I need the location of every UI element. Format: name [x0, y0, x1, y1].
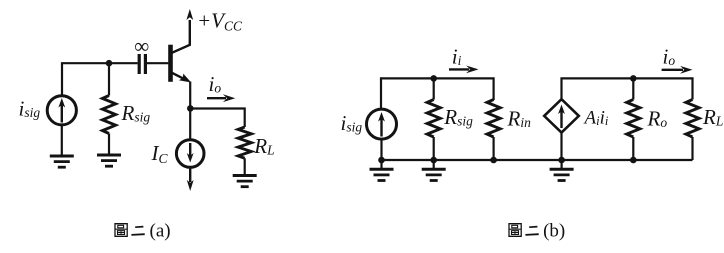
- svg-text:Rin: Rin: [507, 107, 532, 131]
- resistor R_o: [632, 78, 634, 160]
- wire: i_sig (b) bottom to rail: [380, 139, 382, 160]
- svg-text:(a): (a): [150, 221, 171, 242]
- current arrow i_o: [207, 97, 226, 99]
- ground under dependent source: [560, 160, 562, 169]
- current arrow i_o (b): [662, 69, 683, 71]
- wire: I_C to negative supply arrow: [189, 168, 191, 182]
- node: dot at R_sig top: [430, 75, 437, 82]
- supply +VCC arrow: [186, 9, 193, 20]
- svg-text:Rsig: Rsig: [121, 101, 151, 125]
- node: dot at i_sig bottom: [378, 157, 385, 164]
- node: output junction dot: [187, 105, 194, 112]
- svg-text:RL: RL: [253, 134, 274, 158]
- node: junction dot at R_sig top: [106, 60, 113, 67]
- node: dot at R_o bottom: [630, 157, 637, 164]
- transistor Q1 base bar: [168, 45, 173, 82]
- ground under i_sig (b): [380, 160, 382, 169]
- wire: R_sig to ground: [108, 134, 110, 156]
- svg-text:io: io: [209, 72, 222, 96]
- ground under i_sig: [50, 156, 74, 167]
- capacitor C (infinite) plates: [139, 54, 145, 74]
- caption 圖二(a): [115, 224, 145, 237]
- svg-text:RL: RL: [702, 105, 723, 129]
- ground under R_sig: [97, 155, 121, 166]
- svg-text:Rsig: Rsig: [443, 105, 473, 129]
- caption 圖二(b): [509, 224, 539, 237]
- dependent source A_i i_i (diamond): [544, 99, 579, 132]
- resistor R_sig (b): [433, 78, 435, 160]
- node: dot at dependent source bottom: [558, 157, 565, 164]
- wire: node to R_L: [190, 109, 244, 128]
- wire: capacitor to transistor base: [147, 62, 168, 64]
- wire: top base wire from i_sig corner to capacitor: [62, 62, 138, 96]
- svg-text:Ro: Ro: [647, 107, 668, 131]
- wire: input top rail: [381, 77, 494, 109]
- svg-text:isig: isig: [341, 111, 363, 135]
- wire: node down to I_C: [189, 109, 191, 140]
- svg-text:IC: IC: [151, 141, 169, 166]
- resistor R_in: [493, 100, 495, 161]
- wire: i_sig to ground: [61, 125, 63, 156]
- svg-text:Aiii: Aiii: [583, 108, 609, 129]
- wire: diamond top to output rail, output top rail: [560, 77, 693, 99]
- wire: emitter down to output node: [189, 82, 191, 109]
- resistor R_L (b): [686, 100, 699, 138]
- resistor R_sig: [102, 96, 115, 134]
- svg-text:ii: ii: [452, 45, 462, 69]
- wire: R_L to ground: [244, 158, 246, 175]
- svg-text:+VCC: +VCC: [197, 9, 243, 34]
- current source I_C: [176, 140, 204, 168]
- wire: junction down to R_sig: [108, 63, 110, 95]
- svg-text:io: io: [663, 45, 676, 69]
- node: dot at R_sig bottom: [430, 157, 437, 164]
- ground under R_sig (b): [433, 160, 435, 169]
- svg-text:(b): (b): [543, 221, 565, 242]
- current source i_sig (b): [367, 109, 397, 139]
- svg-text:isig: isig: [19, 97, 41, 121]
- node: dot at R_in bottom: [490, 157, 497, 164]
- transistor Q1 emitter with arrow: [171, 72, 187, 80]
- transistor Q1 collector: [171, 20, 190, 53]
- current source i_sig: [47, 96, 76, 125]
- resistor R_L: [238, 127, 251, 158]
- ground under R_L: [233, 176, 257, 187]
- wire: diamond bottom to rail: [560, 133, 562, 160]
- wire: common bottom rail: [381, 159, 693, 161]
- node: dot at R_o top: [630, 75, 637, 82]
- current arrow i_i: [449, 68, 469, 70]
- svg-text:∞: ∞: [134, 34, 149, 58]
